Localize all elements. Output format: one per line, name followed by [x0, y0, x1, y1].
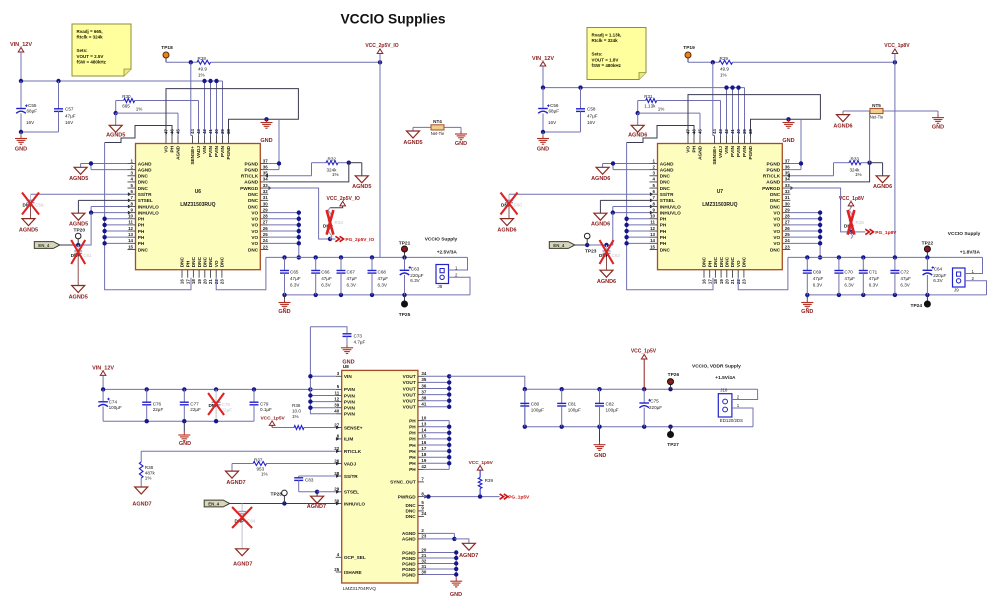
- pin arrowheads: [650, 174, 794, 215]
- ground AGND6 at pins 1,2: [591, 164, 610, 183]
- svg-text:DNC: DNC: [406, 514, 417, 519]
- svg-text:PH: PH: [409, 449, 416, 454]
- svg-text:R35: R35: [856, 220, 865, 225]
- svg-text:INHUVLO: INHUVLO: [660, 210, 681, 215]
- svg-text:VADJ: VADJ: [344, 461, 357, 466]
- svg-text:47: 47: [686, 129, 691, 134]
- svg-text:VO: VO: [773, 223, 780, 228]
- svg-text:Net-Tie: Net-Tie: [870, 114, 884, 119]
- DNP X over C84: [232, 507, 252, 528]
- svg-text:17: 17: [707, 279, 712, 284]
- svg-text:TP22: TP22: [922, 240, 934, 246]
- svg-text:35: 35: [421, 377, 426, 382]
- svg-text:32: 32: [421, 558, 426, 563]
- svg-text:R37: R37: [254, 458, 263, 463]
- svg-text:68µF: 68µF: [27, 109, 38, 114]
- svg-text:AGND: AGND: [766, 180, 780, 185]
- test point TP19: [683, 45, 695, 62]
- svg-text:VOUT: VOUT: [403, 380, 416, 385]
- wire output rail top bottom-circuit: [523, 387, 758, 391]
- svg-text:PVIN: PVIN: [736, 145, 741, 157]
- svg-text:PWRGD: PWRGD: [398, 494, 417, 499]
- test point TP18: [161, 45, 173, 62]
- ground input GND: [15, 132, 27, 153]
- capacitor C61 DNP on EN: [71, 245, 92, 286]
- svg-text:VCC_1p5V: VCC_1p5V: [631, 349, 657, 355]
- ground AGND6 at RTCLK: [873, 176, 892, 190]
- svg-text:25: 25: [263, 232, 268, 237]
- ground AGND5 at STSEL: [69, 213, 88, 227]
- svg-text:PGND: PGND: [402, 556, 416, 561]
- svg-text:VADJ: VADJ: [718, 146, 723, 159]
- svg-text:PH: PH: [409, 425, 416, 430]
- svg-text:PGND: PGND: [767, 167, 781, 172]
- wire rail to VIN and PVIN pins: [202, 79, 222, 136]
- svg-text:NT4: NT4: [433, 119, 442, 124]
- svg-text:PGND: PGND: [245, 161, 259, 166]
- svg-text:PGND: PGND: [402, 572, 416, 577]
- net PG_1p8V output chevrons: [865, 229, 897, 236]
- svg-text:953: 953: [257, 466, 265, 471]
- svg-text:PG_2p5V_IO: PG_2p5V_IO: [345, 237, 374, 243]
- capacitor C72 47uF output: [890, 257, 911, 295]
- svg-text:PH: PH: [138, 217, 145, 222]
- connector J10 ED120/2DS: [718, 388, 743, 424]
- wire VIN PVIN bus: [308, 327, 336, 414]
- svg-text:16V: 16V: [65, 120, 74, 125]
- capacitor C69 47uF output: [803, 257, 824, 295]
- wire VO pin 22 bottom: [738, 257, 788, 289]
- svg-text:1%: 1%: [855, 172, 862, 177]
- svg-text:13: 13: [650, 232, 655, 237]
- svg-text:AGND5: AGND5: [69, 295, 88, 301]
- svg-text:RTICLK: RTICLK: [344, 449, 362, 454]
- svg-text:1%: 1%: [720, 73, 727, 78]
- svg-text:DNC: DNC: [725, 256, 730, 267]
- svg-text:DNC: DNC: [406, 503, 417, 508]
- svg-text:VIN: VIN: [202, 145, 207, 153]
- svg-text:35: 35: [785, 171, 790, 176]
- svg-text:DNC: DNC: [770, 247, 781, 252]
- svg-text:DNC: DNC: [191, 256, 196, 267]
- svg-text:VCC_1p8V: VCC_1p8V: [839, 196, 865, 202]
- svg-text:AGND6: AGND6: [833, 124, 852, 130]
- svg-text:SENSE+: SENSE+: [712, 146, 717, 165]
- svg-text:C82: C82: [606, 401, 615, 406]
- text VCCIO Supply: [948, 231, 981, 256]
- svg-text:GND: GND: [932, 125, 944, 131]
- ground AGND5 at VADJ divider: [106, 113, 125, 139]
- svg-text:1%: 1%: [136, 107, 143, 112]
- net VCC_1p5V flag at output: [631, 349, 657, 390]
- svg-text:GND: GND: [782, 138, 794, 144]
- svg-text:47µF: 47µF: [900, 276, 911, 281]
- svg-text:VOUT: VOUT: [403, 374, 416, 379]
- svg-text:VOUT = 2.5V: VOUT = 2.5V: [77, 54, 104, 59]
- svg-text:J8: J8: [438, 284, 443, 289]
- svg-text:PH: PH: [660, 229, 667, 234]
- svg-text:STSEL: STSEL: [344, 490, 359, 495]
- svg-text:42: 42: [724, 129, 729, 134]
- svg-text:PH: PH: [409, 443, 416, 448]
- ground GND at output: [278, 295, 290, 315]
- wire rail to VIN and PVIN pins: [724, 85, 744, 135]
- svg-text:30: 30: [263, 201, 268, 206]
- svg-text:C69: C69: [813, 270, 822, 275]
- svg-text:PVIN: PVIN: [344, 387, 356, 392]
- svg-text:AGND7: AGND7: [233, 562, 252, 568]
- svg-text:PGND: PGND: [748, 145, 753, 159]
- svg-text:PH: PH: [660, 235, 667, 240]
- svg-text:DNC: DNC: [203, 256, 208, 267]
- svg-text:C75: C75: [650, 398, 659, 403]
- svg-text:22µF: 22µF: [190, 407, 201, 412]
- wire J10 pins: [732, 389, 758, 427]
- svg-text:U7: U7: [717, 189, 724, 195]
- net EN_4 tag: [549, 242, 587, 249]
- svg-text:24: 24: [785, 238, 790, 243]
- svg-text:12: 12: [650, 226, 655, 231]
- svg-text:49.9: 49.9: [198, 67, 207, 72]
- svg-text:23: 23: [742, 279, 747, 284]
- svg-text:TP28: TP28: [271, 492, 283, 498]
- svg-text:10: 10: [128, 214, 133, 219]
- svg-text:SENSE+: SENSE+: [190, 146, 195, 165]
- svg-text:R33: R33: [851, 157, 860, 162]
- svg-text:SENSE+: SENSE+: [344, 425, 363, 430]
- svg-text:DNC: DNC: [248, 247, 259, 252]
- svg-text:PH: PH: [409, 418, 416, 423]
- svg-text:6.3V: 6.3V: [321, 283, 331, 288]
- capacitor C75 220uF output: [639, 389, 662, 427]
- svg-text:fSW = 480kHz: fSW = 480kHz: [592, 63, 622, 68]
- svg-text:49.9: 49.9: [720, 67, 729, 72]
- svg-text:PH: PH: [185, 260, 190, 267]
- svg-text:TP23: TP23: [585, 249, 597, 255]
- svg-text:30: 30: [421, 569, 426, 574]
- svg-text:36: 36: [785, 164, 790, 169]
- svg-text:SYNC_OUT: SYNC_OUT: [390, 480, 416, 485]
- svg-text:GND: GND: [15, 147, 27, 153]
- svg-text:PVIN: PVIN: [344, 406, 356, 411]
- op-amp U6 LMZ31503RUQ regulator module: [128, 129, 269, 285]
- svg-text:25: 25: [785, 232, 790, 237]
- svg-text:24: 24: [421, 511, 426, 516]
- svg-text:+1.8V/3A: +1.8V/3A: [960, 250, 981, 256]
- wire INHUVLO pins 8,9: [78, 206, 127, 245]
- ground input GND: [537, 132, 549, 153]
- test point TP25: [399, 295, 411, 318]
- svg-text:16V: 16V: [548, 120, 557, 125]
- svg-text:DNC: DNC: [406, 509, 417, 514]
- wire PGND pins: [424, 550, 459, 578]
- svg-text:31: 31: [421, 564, 426, 569]
- wire RTCLK AGND branch: [790, 111, 882, 182]
- svg-text:DNC: DNC: [730, 256, 735, 267]
- svg-text:fSW = 480kHz: fSW = 480kHz: [77, 60, 107, 65]
- svg-text:Sets:: Sets:: [592, 52, 604, 57]
- svg-text:DNC: DNC: [248, 192, 259, 197]
- svg-text:1%: 1%: [658, 107, 665, 112]
- svg-text:VIN: VIN: [344, 374, 352, 379]
- net VCC_2p5V_IO flag at pull-up: [327, 196, 360, 208]
- net VIN_12V power flag: [532, 56, 554, 88]
- svg-text:TP19: TP19: [683, 45, 695, 51]
- svg-text:TP21: TP21: [399, 240, 411, 246]
- svg-text:PVIN: PVIN: [208, 145, 213, 157]
- svg-text:VO: VO: [251, 210, 258, 215]
- svg-text:100µF: 100µF: [606, 407, 619, 412]
- DNP X over R35: [848, 210, 855, 235]
- svg-text:AGND5: AGND5: [19, 228, 38, 234]
- svg-text:34: 34: [785, 177, 790, 182]
- svg-text:C80: C80: [531, 401, 540, 406]
- svg-text:INHUVLO: INHUVLO: [660, 204, 681, 209]
- capacitor C79 0.1uF: [250, 389, 273, 421]
- svg-text:16V: 16V: [587, 120, 596, 125]
- ground GND at output bottom-circuit: [594, 427, 607, 459]
- ground AGND6 at STSEL: [591, 213, 610, 227]
- svg-text:28: 28: [785, 214, 790, 219]
- svg-text:GND: GND: [342, 360, 354, 366]
- svg-text:27: 27: [785, 220, 790, 225]
- wire AGND pins 2,23: [424, 533, 469, 543]
- svg-text:16: 16: [421, 440, 426, 445]
- svg-text:INHUVLO: INHUVLO: [138, 204, 159, 209]
- svg-text:PVIN: PVIN: [344, 399, 356, 404]
- svg-text:LMZ31503RUQ: LMZ31503RUQ: [180, 202, 215, 208]
- svg-text:40: 40: [214, 129, 219, 134]
- svg-text:C73: C73: [354, 333, 363, 338]
- svg-text:47µF: 47µF: [587, 114, 598, 119]
- svg-text:DNC: DNC: [220, 256, 225, 267]
- svg-text:23: 23: [785, 244, 790, 249]
- svg-text:AGND7: AGND7: [459, 553, 478, 559]
- svg-text:TP18: TP18: [161, 45, 173, 51]
- svg-text:24: 24: [263, 238, 268, 243]
- DNP X over C60: [501, 193, 518, 215]
- svg-text:C68: C68: [378, 270, 387, 275]
- svg-text:AGND: AGND: [402, 531, 416, 536]
- wire PGND top route: [166, 89, 298, 136]
- wire VOUT sense feed: [688, 60, 897, 64]
- svg-text:AGND5: AGND5: [69, 176, 88, 182]
- resistor R30 665: [122, 94, 142, 112]
- svg-text:VCCIO, VDDR Supply: VCCIO, VDDR Supply: [692, 364, 741, 370]
- capacitor C77 22uF: [180, 389, 201, 421]
- svg-text:34: 34: [421, 371, 426, 376]
- svg-text:VOUT: VOUT: [403, 399, 416, 404]
- svg-text:6.3V: 6.3V: [869, 283, 879, 288]
- svg-text:VO: VO: [773, 217, 780, 222]
- svg-text:100µF: 100µF: [568, 407, 581, 412]
- svg-text:C62: C62: [612, 253, 621, 258]
- op-amp U7 LMZ31503RUQ regulator module: [650, 129, 791, 285]
- svg-text:DNC: DNC: [660, 186, 671, 191]
- DNP X over C59: [22, 193, 39, 215]
- test point TP22: [922, 240, 934, 257]
- svg-text:C79: C79: [260, 401, 269, 406]
- svg-text:100µF: 100µF: [531, 407, 544, 412]
- svg-text:34: 34: [263, 177, 268, 182]
- ground GND input bottom: [178, 421, 191, 447]
- svg-text:26: 26: [263, 226, 268, 231]
- test point TP20: [74, 228, 86, 248]
- svg-text:1%: 1%: [198, 73, 205, 78]
- svg-text:47µF: 47µF: [321, 276, 332, 281]
- svg-text:17: 17: [185, 279, 190, 284]
- svg-text:28: 28: [263, 214, 268, 219]
- capacitor C60 DNP on SS/TR: [501, 194, 650, 218]
- svg-text:AGND5: AGND5: [352, 184, 371, 190]
- op-amp U8 LMZ31704RVQ regulator module: [342, 364, 418, 592]
- svg-text:10: 10: [650, 214, 655, 219]
- svg-text:16: 16: [180, 279, 185, 284]
- wire PGND pins 37,36: [268, 119, 281, 169]
- svg-text:R36: R36: [292, 403, 301, 408]
- svg-text:42: 42: [421, 464, 426, 469]
- svg-text:DNC: DNC: [197, 256, 202, 267]
- svg-text:40: 40: [736, 129, 741, 134]
- svg-text:VCCIO Supply: VCCIO Supply: [425, 236, 458, 242]
- wire VCC_2p5V_IO drop to output rail: [379, 62, 381, 257]
- svg-text:37: 37: [785, 158, 790, 163]
- svg-text:1%: 1%: [292, 414, 299, 419]
- DNP X over C78: [208, 393, 224, 415]
- title VCCIO Supplies: [340, 12, 445, 27]
- svg-text:PVIN: PVIN: [344, 412, 356, 417]
- capacitor C68 47uF output: [368, 257, 389, 295]
- svg-text:13: 13: [128, 232, 133, 237]
- capacitor C73 4.7uF: [310, 327, 365, 345]
- svg-text:VO: VO: [773, 241, 780, 246]
- svg-text:ISHARE: ISHARE: [344, 570, 362, 575]
- svg-text:TP25: TP25: [399, 312, 411, 318]
- ground AGND7 at pins 2,23: [459, 543, 478, 559]
- svg-text:14: 14: [128, 238, 133, 243]
- svg-text:4.7µF: 4.7µF: [354, 339, 366, 344]
- svg-text:R31: R31: [644, 94, 653, 99]
- capacitor C66 47uF output: [311, 257, 332, 295]
- svg-text:21: 21: [208, 279, 213, 284]
- net VIN_12V power flag bottom: [92, 365, 114, 389]
- svg-text:20: 20: [421, 547, 426, 552]
- svg-text:R30: R30: [122, 94, 131, 99]
- capacitor C63 220uF output: [400, 257, 424, 295]
- svg-text:PG_1p5V: PG_1p5V: [508, 495, 530, 501]
- svg-text:44: 44: [712, 129, 717, 134]
- svg-text:PVIN: PVIN: [730, 145, 735, 157]
- svg-text:R28: R28: [198, 56, 207, 61]
- svg-text:C63: C63: [411, 267, 420, 272]
- svg-text:VCC_1p5V: VCC_1p5V: [260, 415, 285, 421]
- svg-text:C76: C76: [153, 401, 162, 406]
- svg-text:PH: PH: [170, 145, 175, 152]
- wire INHUVLO pins 8,9: [587, 206, 649, 245]
- svg-text:DNC: DNC: [770, 198, 781, 203]
- svg-text:DNC: DNC: [138, 247, 149, 252]
- svg-text:42: 42: [202, 129, 207, 134]
- capacitor C67 47uF output: [337, 257, 358, 295]
- svg-text:220µF: 220µF: [649, 405, 662, 410]
- capacitor C55 68uF bulk input cap: [16, 81, 37, 132]
- svg-text:45: 45: [176, 129, 181, 134]
- svg-text:41: 41: [208, 129, 213, 134]
- svg-text:C56: C56: [550, 103, 559, 108]
- resistor R37 953 on VADJ: [232, 458, 336, 477]
- svg-text:ED120/2DS: ED120/2DS: [720, 418, 743, 423]
- capacitor C71 47uF output: [859, 257, 880, 295]
- svg-text:C55: C55: [28, 103, 37, 108]
- svg-text:20: 20: [725, 279, 730, 284]
- svg-text:40: 40: [334, 409, 339, 414]
- svg-text:15: 15: [128, 244, 133, 249]
- svg-text:NT5: NT5: [872, 103, 881, 108]
- U8 right pins: [390, 371, 427, 577]
- svg-text:VO: VO: [214, 260, 219, 267]
- DNP X over C62: [600, 240, 614, 264]
- svg-text:AGND6: AGND6: [591, 176, 610, 182]
- svg-text:DNC: DNC: [713, 256, 718, 267]
- svg-text:+2.5V/3A: +2.5V/3A: [437, 250, 458, 256]
- svg-text:43: 43: [196, 129, 201, 134]
- wire VOUT bus: [424, 374, 525, 409]
- wire SENSE+ pin 44: [713, 62, 715, 135]
- svg-text:PH: PH: [660, 217, 667, 222]
- svg-text:6.3V: 6.3V: [410, 278, 420, 283]
- svg-text:6.3V: 6.3V: [378, 283, 388, 288]
- svg-text:0.1µF: 0.1µF: [260, 407, 272, 412]
- svg-text:RTICLK: RTICLK: [763, 174, 781, 179]
- svg-text:STSEL: STSEL: [660, 198, 675, 203]
- svg-text:PGND: PGND: [402, 567, 416, 572]
- svg-text:C60: C60: [514, 203, 523, 208]
- svg-text:32: 32: [785, 189, 790, 194]
- svg-text:DNC: DNC: [208, 256, 213, 267]
- svg-text:39: 39: [220, 129, 225, 134]
- capacitor C76 22uF: [142, 389, 163, 421]
- connector J8 output header: [436, 265, 458, 289]
- capacitor C58 47uF input cap: [541, 88, 598, 135]
- svg-text:VCC_2p5V_IO: VCC_2p5V_IO: [365, 43, 398, 49]
- svg-text:12: 12: [128, 226, 133, 231]
- wire RTCLK AGND branch: [268, 163, 362, 182]
- svg-text:Rtclk = 324k: Rtclk = 324k: [77, 35, 104, 40]
- svg-text:GND: GND: [455, 141, 467, 147]
- svg-text:DNC: DNC: [138, 180, 149, 185]
- svg-text:19: 19: [421, 458, 426, 463]
- svg-text:AGND: AGND: [244, 180, 258, 185]
- svg-text:VO: VO: [251, 229, 258, 234]
- svg-text:C58: C58: [587, 107, 596, 112]
- ground GND at output: [801, 295, 813, 315]
- wire connector pins: [965, 257, 987, 295]
- resistor R39 pull-up: [478, 478, 493, 497]
- wire PWRGD: [268, 188, 335, 241]
- svg-text:12: 12: [334, 396, 339, 401]
- svg-text:R38: R38: [145, 465, 154, 470]
- svg-text:VOUT: VOUT: [403, 392, 416, 397]
- svg-text:11: 11: [335, 390, 340, 395]
- svg-text:C72: C72: [900, 270, 909, 275]
- wire output rail bottom: [282, 293, 470, 297]
- svg-text:6.3V: 6.3V: [347, 283, 357, 288]
- svg-text:C64: C64: [934, 267, 943, 272]
- svg-text:AGND6: AGND6: [591, 222, 610, 228]
- svg-text:38: 38: [226, 129, 231, 134]
- svg-text:EN_4: EN_4: [38, 243, 50, 248]
- wire PWRGD: [790, 188, 865, 234]
